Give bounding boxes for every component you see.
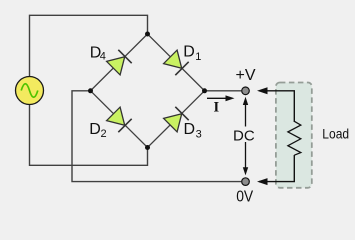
wire: left node to 0V rail	[72, 91, 241, 182]
svg-text:0V: 0V	[236, 188, 253, 205]
diode D4	[107, 50, 132, 75]
ac source V	[16, 77, 44, 105]
wire: source bottom to bottom node	[30, 105, 148, 166]
wire: bridge diamond edges	[91, 34, 205, 148]
svg-text:D: D	[184, 121, 196, 138]
terminal +V	[242, 87, 250, 95]
node bottom	[145, 145, 150, 150]
resistor (load)	[288, 121, 301, 155]
svg-text:+V: +V	[236, 67, 256, 84]
load box	[276, 83, 312, 188]
dc double arrow	[243, 97, 248, 176]
svg-text:2: 2	[101, 128, 107, 140]
svg-text:D: D	[183, 44, 195, 61]
svg-text:D: D	[89, 121, 101, 138]
node right	[202, 88, 207, 93]
diode D2	[107, 107, 132, 132]
wire: right node to +V terminal	[205, 90, 242, 92]
diode D3	[164, 107, 189, 132]
svg-text:DC: DC	[233, 128, 255, 145]
svg-text:I: I	[214, 99, 220, 115]
svg-text:1: 1	[195, 51, 201, 63]
svg-text:Load: Load	[322, 126, 349, 142]
load connection arrow bottom	[257, 155, 294, 185]
svg-text:3: 3	[196, 129, 202, 141]
terminal 0V	[242, 178, 250, 186]
load connection arrow top	[257, 87, 294, 122]
node top	[145, 32, 150, 37]
wire: source top to top node	[30, 15, 148, 76]
diode D1	[164, 50, 189, 75]
node left	[88, 88, 93, 93]
svg-text:4: 4	[100, 51, 106, 63]
current arrow I	[207, 95, 235, 101]
